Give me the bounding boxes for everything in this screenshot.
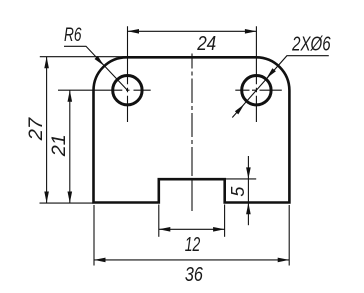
centerline vertical hole right xyxy=(255,26,257,122)
extension line notch top right xyxy=(226,178,256,180)
centerline horizontal hole right xyxy=(235,89,281,91)
dimension line 21 xyxy=(69,90,71,203)
leader R6 xyxy=(64,46,127,90)
svg-text:36: 36 xyxy=(185,263,203,286)
dimension line 12 xyxy=(159,228,225,230)
centerline vertical hole left xyxy=(127,26,129,122)
centerline horizontal hole left xyxy=(58,89,151,91)
centerline vertical plate xyxy=(191,54,193,212)
leader 2XØ6 xyxy=(232,56,328,118)
extension line bottom left xyxy=(40,202,94,204)
plate outline xyxy=(94,57,290,202)
dimension line 36 xyxy=(94,259,289,261)
extension lines 12 xyxy=(158,205,160,237)
svg-text:21: 21 xyxy=(49,134,70,157)
hole left xyxy=(113,76,142,105)
svg-text:24: 24 xyxy=(196,32,216,55)
hole right xyxy=(242,76,271,105)
svg-text:12: 12 xyxy=(185,233,201,256)
dimension line 24 xyxy=(128,30,257,32)
svg-text:2XØ6: 2XØ6 xyxy=(291,34,331,56)
extension lines 36 xyxy=(93,205,95,266)
extension line top left xyxy=(40,56,128,58)
dimension line 5 xyxy=(247,156,249,225)
svg-text:5: 5 xyxy=(227,186,248,197)
svg-text:27: 27 xyxy=(26,116,47,141)
dimension line 27 xyxy=(46,57,48,203)
svg-text:R6: R6 xyxy=(64,24,82,46)
